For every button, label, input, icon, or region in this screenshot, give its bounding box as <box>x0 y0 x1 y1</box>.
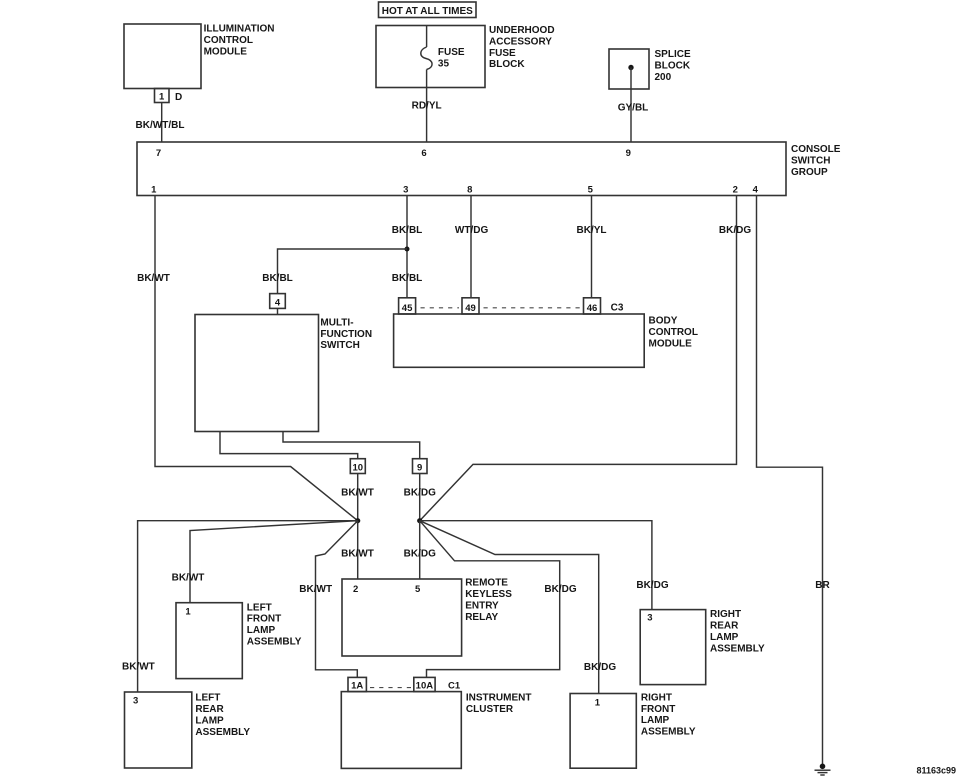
svg-text:BK/DG: BK/DG <box>719 225 751 236</box>
svg-text:SWITCH: SWITCH <box>320 340 359 351</box>
svg-text:UNDERHOOD: UNDERHOOD <box>489 25 555 36</box>
instrument cluster connector 1A <box>348 677 366 691</box>
svg-text:SPLICE: SPLICE <box>655 49 691 60</box>
svg-text:BK/DG: BK/DG <box>636 580 668 591</box>
wire BK/BL from console pin 3 to BCM pin 45 <box>392 196 423 298</box>
svg-text:2: 2 <box>733 185 738 196</box>
wire BK/DG right junction to relay pin 5 <box>404 521 436 579</box>
connector C1 dashed separator <box>370 687 412 689</box>
svg-text:BK/DG: BK/DG <box>584 662 616 673</box>
BCM connector pin 49 <box>462 298 479 314</box>
svg-text:2: 2 <box>353 584 358 595</box>
underhood accessory fuse block <box>376 25 555 88</box>
ground G300 <box>815 764 831 776</box>
splice block 200 <box>609 49 691 89</box>
svg-text:BK/DG: BK/DG <box>404 549 436 560</box>
connector C3 dashed separators <box>421 307 460 309</box>
svg-text:ASSEMBLY: ASSEMBLY <box>710 643 765 654</box>
svg-text:ACCESSORY: ACCESSORY <box>489 36 552 47</box>
wire from MFS to connector 10 <box>220 432 358 459</box>
wire BK/DG right junction to instrument cluster 10A <box>420 521 577 678</box>
console switch group connector <box>137 142 841 196</box>
svg-text:5: 5 <box>415 584 421 595</box>
svg-text:49: 49 <box>465 303 476 314</box>
wire BK/WT from console pin 1 to left junction <box>137 196 358 521</box>
wire BK/WT left junction to left rear lamp <box>122 521 358 692</box>
svg-text:BK/WT: BK/WT <box>172 573 205 584</box>
svg-text:BK/DG: BK/DG <box>404 488 436 499</box>
wire RD/YL from fuse 35 to console pin 6 <box>412 70 442 143</box>
svg-text:8: 8 <box>467 185 472 196</box>
svg-text:SWITCH: SWITCH <box>791 155 830 166</box>
BCM connector pin 46 <box>584 298 601 314</box>
svg-text:REAR: REAR <box>195 704 224 715</box>
svg-text:CONTROL: CONTROL <box>649 327 698 338</box>
svg-text:REAR: REAR <box>710 621 739 632</box>
remote keyless entry relay <box>342 578 512 656</box>
svg-text:81163c99: 81163c99 <box>916 766 956 776</box>
inline connector 9 <box>413 459 428 474</box>
left front lamp assembly <box>176 602 302 678</box>
svg-text:GROUP: GROUP <box>791 167 828 178</box>
svg-text:BK/WT: BK/WT <box>122 662 155 673</box>
svg-text:LAMP: LAMP <box>641 715 670 726</box>
svg-text:BK/YL: BK/YL <box>577 225 607 236</box>
svg-text:C3: C3 <box>611 303 624 314</box>
svg-text:1A: 1A <box>351 681 363 692</box>
wire BK/DG from console pin 2 to right junction <box>420 196 752 521</box>
multi-function switch <box>195 315 372 432</box>
svg-text:35: 35 <box>438 59 450 70</box>
svg-text:CLUSTER: CLUSTER <box>466 704 514 715</box>
svg-text:1: 1 <box>151 185 157 196</box>
svg-text:3: 3 <box>647 613 652 624</box>
svg-text:1: 1 <box>185 607 191 618</box>
inline connector 10 <box>350 459 365 474</box>
svg-text:1: 1 <box>159 92 165 103</box>
svg-text:MODULE: MODULE <box>649 338 693 349</box>
svg-text:200: 200 <box>655 72 672 83</box>
svg-text:REMOTE: REMOTE <box>465 578 508 589</box>
svg-text:46: 46 <box>587 303 598 314</box>
svg-text:CONSOLE: CONSOLE <box>791 144 841 155</box>
svg-text:BLOCK: BLOCK <box>655 60 691 71</box>
svg-text:LAMP: LAMP <box>710 632 739 643</box>
svg-text:ILLUMINATION: ILLUMINATION <box>204 24 275 35</box>
svg-text:10: 10 <box>353 463 364 474</box>
wire GY/BL from splice 200 to console pin 9 <box>618 68 649 143</box>
svg-text:4: 4 <box>753 185 759 196</box>
svg-text:ASSEMBLY: ASSEMBLY <box>247 637 302 648</box>
svg-text:ASSEMBLY: ASSEMBLY <box>195 727 250 738</box>
splice node on BK/BL <box>405 247 410 252</box>
ICM connector pin 1 <box>155 89 170 103</box>
svg-text:FUSE: FUSE <box>489 48 516 59</box>
body control module <box>394 314 698 367</box>
svg-text:RIGHT: RIGHT <box>641 692 672 703</box>
svg-text:ASSEMBLY: ASSEMBLY <box>641 727 696 738</box>
svg-text:BK/BL: BK/BL <box>262 273 293 284</box>
instrument cluster <box>341 692 531 769</box>
svg-text:7: 7 <box>156 148 161 159</box>
right rear lamp assembly <box>640 609 765 684</box>
BCM connector pin 45 <box>399 298 416 314</box>
svg-text:FRONT: FRONT <box>247 614 281 625</box>
svg-text:BR: BR <box>815 580 830 591</box>
svg-text:INSTRUMENT: INSTRUMENT <box>466 692 532 703</box>
wire BK/YL from console pin 5 to BCM pin 46 <box>577 196 607 298</box>
left rear lamp assembly <box>125 692 251 768</box>
illumination control module U1 <box>124 24 275 89</box>
svg-text:D: D <box>175 92 182 103</box>
svg-text:MODULE: MODULE <box>204 46 248 57</box>
left splice junction <box>355 518 360 523</box>
multi-function switch pin 4 connector <box>270 294 286 315</box>
svg-text:FRONT: FRONT <box>641 704 675 715</box>
svg-text:6: 6 <box>421 148 426 159</box>
wire BK/BL branch to multi-function switch pin 4 <box>262 249 407 294</box>
svg-text:HOT AT ALL TIMES: HOT AT ALL TIMES <box>382 6 473 17</box>
svg-text:FUSE: FUSE <box>438 47 465 58</box>
right front lamp assembly <box>570 692 696 768</box>
fuse F35 <box>421 26 465 70</box>
wire BK/DG connector 9 to right junction <box>404 474 436 521</box>
svg-text:RIGHT: RIGHT <box>710 609 741 620</box>
svg-text:1: 1 <box>595 698 601 709</box>
svg-text:BK/WT: BK/WT <box>341 488 374 499</box>
svg-text:BK/BL: BK/BL <box>392 273 423 284</box>
svg-text:WT/DG: WT/DG <box>455 225 489 236</box>
wire BK/DG right junction to right front lamp <box>420 521 617 694</box>
wire BK/WT left junction to instrument cluster 1A <box>299 521 357 678</box>
svg-text:BK/WT/BL: BK/WT/BL <box>136 120 185 131</box>
svg-text:10A: 10A <box>416 681 434 692</box>
svg-text:BK/WT: BK/WT <box>299 584 332 595</box>
svg-text:LEFT: LEFT <box>195 693 220 704</box>
svg-text:LEFT: LEFT <box>247 602 272 613</box>
svg-text:ENTRY: ENTRY <box>465 600 499 611</box>
svg-text:BODY: BODY <box>649 316 678 327</box>
instrument cluster connector 10A <box>414 677 435 691</box>
wire BK/WT/BL from ICM pin 1 to console pin 7 <box>136 103 185 143</box>
svg-text:FUNCTION: FUNCTION <box>320 329 372 340</box>
svg-text:4: 4 <box>275 298 281 309</box>
svg-text:9: 9 <box>417 463 422 474</box>
svg-text:3: 3 <box>133 696 138 707</box>
svg-text:9: 9 <box>626 148 631 159</box>
svg-text:3: 3 <box>403 185 408 196</box>
right splice junction <box>417 518 422 523</box>
wire from MFS to connector 9 <box>283 432 420 459</box>
svg-text:BK/WT: BK/WT <box>341 549 374 560</box>
wire BR from console pin 4 to ground <box>757 196 831 766</box>
svg-text:RELAY: RELAY <box>465 612 498 623</box>
svg-text:BLOCK: BLOCK <box>489 59 525 70</box>
svg-text:5: 5 <box>588 185 594 196</box>
svg-text:GY/BL: GY/BL <box>618 103 649 114</box>
svg-text:LAMP: LAMP <box>247 625 276 636</box>
svg-text:RD/YL: RD/YL <box>412 101 442 112</box>
svg-text:BK/BL: BK/BL <box>392 225 423 236</box>
wire WT/DG from console pin 8 to BCM pin 49 <box>455 196 489 298</box>
svg-text:C1: C1 <box>448 681 461 692</box>
svg-text:LAMP: LAMP <box>195 715 224 726</box>
wire BK/WT left junction to relay pin 2 <box>341 521 374 579</box>
svg-text:MULTI-: MULTI- <box>320 317 353 328</box>
svg-text:BK/DG: BK/DG <box>544 584 576 595</box>
svg-text:45: 45 <box>402 303 413 314</box>
wire BK/WT connector 10 to left junction <box>341 474 374 521</box>
svg-text:CONTROL: CONTROL <box>204 35 253 46</box>
svg-text:BK/WT: BK/WT <box>137 273 170 284</box>
hot at all times banner <box>379 2 477 18</box>
wire BK/WT left junction to left front lamp <box>172 521 358 603</box>
svg-text:KEYLESS: KEYLESS <box>465 589 512 600</box>
wire BK/DG right junction to right rear lamp <box>420 521 669 610</box>
